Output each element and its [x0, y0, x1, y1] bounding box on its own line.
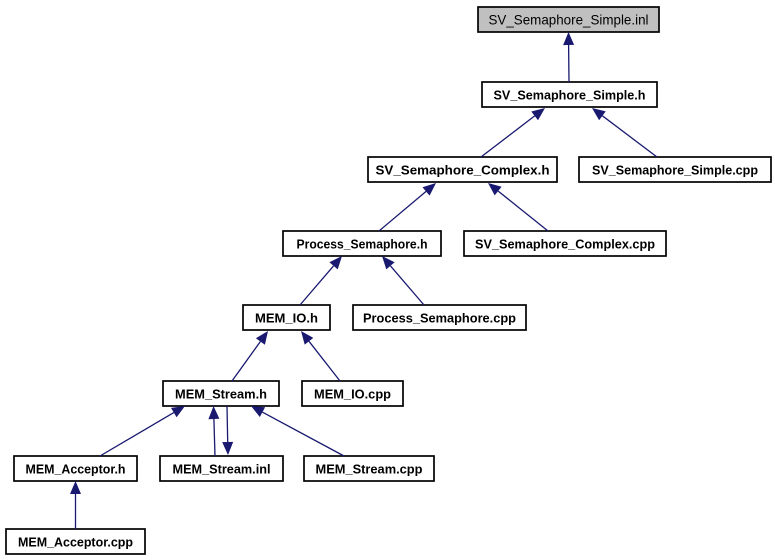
- edge MEM_Stream.h -> MEM_IO.h: [232, 331, 268, 381]
- svg-text:Process_Semaphore.h: Process_Semaphore.h: [297, 237, 428, 252]
- edge MEM_Acceptor.h -> MEM_Stream.h: [100, 406, 185, 456]
- svg-text:SV_Semaphore_Complex.cpp: SV_Semaphore_Complex.cpp: [475, 237, 655, 252]
- node SV_Semaphore_Simple.h: [482, 82, 657, 107]
- edge MEM_Acceptor.cpp -> MEM_Acceptor.h: [70, 481, 81, 529]
- svg-text:MEM_Stream.inl: MEM_Stream.inl: [173, 462, 271, 477]
- edge MEM_IO.h -> Process_Semaphore.h: [300, 256, 342, 305]
- edge SV_Semaphore_Complex.cpp -> SV_Semaphore_Complex.h: [488, 183, 548, 231]
- node MEM_Acceptor.cpp: [6, 529, 145, 554]
- node MEM_Stream.inl: [160, 456, 283, 481]
- svg-text:MEM_IO.cpp: MEM_IO.cpp: [314, 387, 391, 402]
- edge SV_Semaphore_Complex.h -> SV_Semaphore_Simple.h: [481, 108, 545, 157]
- node SV_Semaphore_Complex.h: [368, 157, 557, 182]
- svg-text:MEM_Stream.cpp: MEM_Stream.cpp: [316, 462, 423, 477]
- svg-text:MEM_Stream.h: MEM_Stream.h: [175, 387, 267, 402]
- node MEM_IO.h: [243, 305, 330, 330]
- node MEM_Stream.h: [163, 381, 279, 406]
- svg-text:SV_Semaphore_Simple.inl: SV_Semaphore_Simple.inl: [489, 12, 649, 28]
- node SV_Semaphore_Simple.inl: [478, 7, 659, 32]
- svg-text:MEM_Acceptor.cpp: MEM_Acceptor.cpp: [18, 535, 133, 550]
- edge Process_Semaphore.h -> SV_Semaphore_Complex.h: [379, 183, 436, 231]
- edge SV_Semaphore_Simple.h -> SV_Semaphore_Simple.inl: [563, 32, 574, 82]
- node MEM_Acceptor.h: [14, 456, 137, 481]
- node MEM_Stream.cpp: [304, 456, 434, 481]
- svg-text:SV_Semaphore_Complex.h: SV_Semaphore_Complex.h: [376, 163, 550, 178]
- node MEM_IO.cpp: [302, 381, 403, 406]
- edge Process_Semaphore.cpp -> Process_Semaphore.h: [382, 256, 424, 305]
- svg-text:MEM_Acceptor.h: MEM_Acceptor.h: [26, 462, 126, 477]
- edge SV_Semaphore_Simple.cpp -> SV_Semaphore_Simple.h: [592, 108, 657, 157]
- svg-text:SV_Semaphore_Simple.cpp: SV_Semaphore_Simple.cpp: [592, 163, 758, 178]
- edge MEM_IO.cpp -> MEM_IO.h: [301, 331, 340, 381]
- node SV_Semaphore_Simple.cpp: [579, 157, 771, 182]
- node Process_Semaphore.cpp: [353, 305, 526, 330]
- node Process_Semaphore.h: [283, 231, 441, 256]
- node SV_Semaphore_Complex.cpp: [464, 231, 666, 256]
- edge MEM_Stream.h -> MEM_Stream.inl: [222, 406, 233, 455]
- svg-text:Process_Semaphore.cpp: Process_Semaphore.cpp: [363, 311, 516, 326]
- edge MEM_Stream.cpp -> MEM_Stream.h: [251, 406, 344, 456]
- edge MEM_Stream.inl -> MEM_Stream.h: [208, 406, 219, 456]
- svg-text:SV_Semaphore_Simple.h: SV_Semaphore_Simple.h: [494, 88, 646, 103]
- svg-text:MEM_IO.h: MEM_IO.h: [255, 311, 318, 326]
